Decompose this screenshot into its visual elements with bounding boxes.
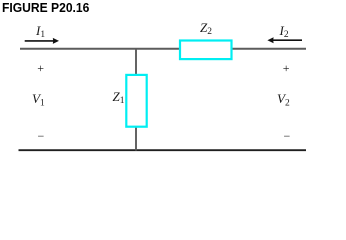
label Z1 xyxy=(113,89,125,105)
impedance Z1 (shunt box) xyxy=(126,75,146,127)
label Z2 xyxy=(200,20,212,36)
polarity minus (port 2) xyxy=(284,129,291,144)
figure caption FIGURE P20.16 xyxy=(2,0,89,15)
polarity plus (port 1) xyxy=(37,61,44,76)
wire: top conductor (port 1 to port 2) xyxy=(20,48,306,50)
impedance Z2 (series box) xyxy=(180,41,232,60)
polarity plus (port 2) xyxy=(283,61,290,76)
wire: bottom conductor (port 1 to port 2) xyxy=(19,149,307,151)
label I1 xyxy=(36,23,45,39)
label V2 xyxy=(277,91,290,107)
label I2 xyxy=(280,23,289,39)
wire: Z1 branch upper stem xyxy=(135,48,137,75)
wire: Z1 branch lower stem xyxy=(135,127,137,151)
label V1 xyxy=(32,91,45,107)
current arrow I1 (pointing right) xyxy=(25,38,59,44)
polarity minus (port 1) xyxy=(38,129,45,144)
current arrow I2 (pointing left) xyxy=(267,37,302,43)
